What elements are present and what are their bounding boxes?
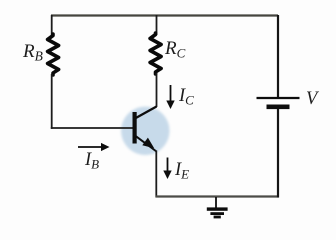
current arrow IB	[78, 143, 110, 151]
label IB	[84, 150, 99, 172]
svg-text:IB: IB	[84, 150, 99, 172]
svg-text:IE: IE	[174, 160, 189, 182]
wire left vertical upper (top rail to RB)	[51, 15, 53, 35]
transistor Q1 collector lead	[136, 107, 157, 119]
svg-text:IC: IC	[178, 86, 194, 108]
resistor RC	[150, 33, 161, 74]
wire left vertical lower (RB to base corner)	[51, 74, 53, 129]
label IE	[174, 160, 189, 182]
label IC	[178, 86, 194, 108]
wire right vertical lower (battery to bottom rail)	[277, 109, 279, 198]
ground	[207, 197, 228, 218]
wire collector vertical (RC to transistor)	[156, 73, 158, 107]
wire RC vertical upper (top rail to RC)	[156, 15, 158, 35]
wire top rail	[51, 14, 278, 16]
svg-text:RC: RC	[164, 38, 186, 61]
svg-text:RB: RB	[22, 41, 43, 64]
transistor Q1 base bar	[133, 112, 137, 144]
label RB	[22, 41, 43, 64]
current arrow IE	[163, 158, 171, 180]
wire base horizontal	[51, 127, 133, 129]
wire emitter vertical	[155, 151, 157, 198]
current arrow IC	[166, 85, 174, 109]
battery V	[257, 98, 300, 109]
svg-text:V: V	[306, 89, 320, 109]
label RC	[164, 38, 186, 61]
resistor RB	[48, 34, 59, 75]
transistor Q1 emitter lead with arrow	[136, 136, 157, 151]
wire right vertical upper (top rail to battery)	[277, 15, 279, 97]
label V	[306, 89, 320, 109]
transistor Q1 highlight circle	[121, 107, 169, 155]
wire bottom rail	[155, 195, 278, 197]
